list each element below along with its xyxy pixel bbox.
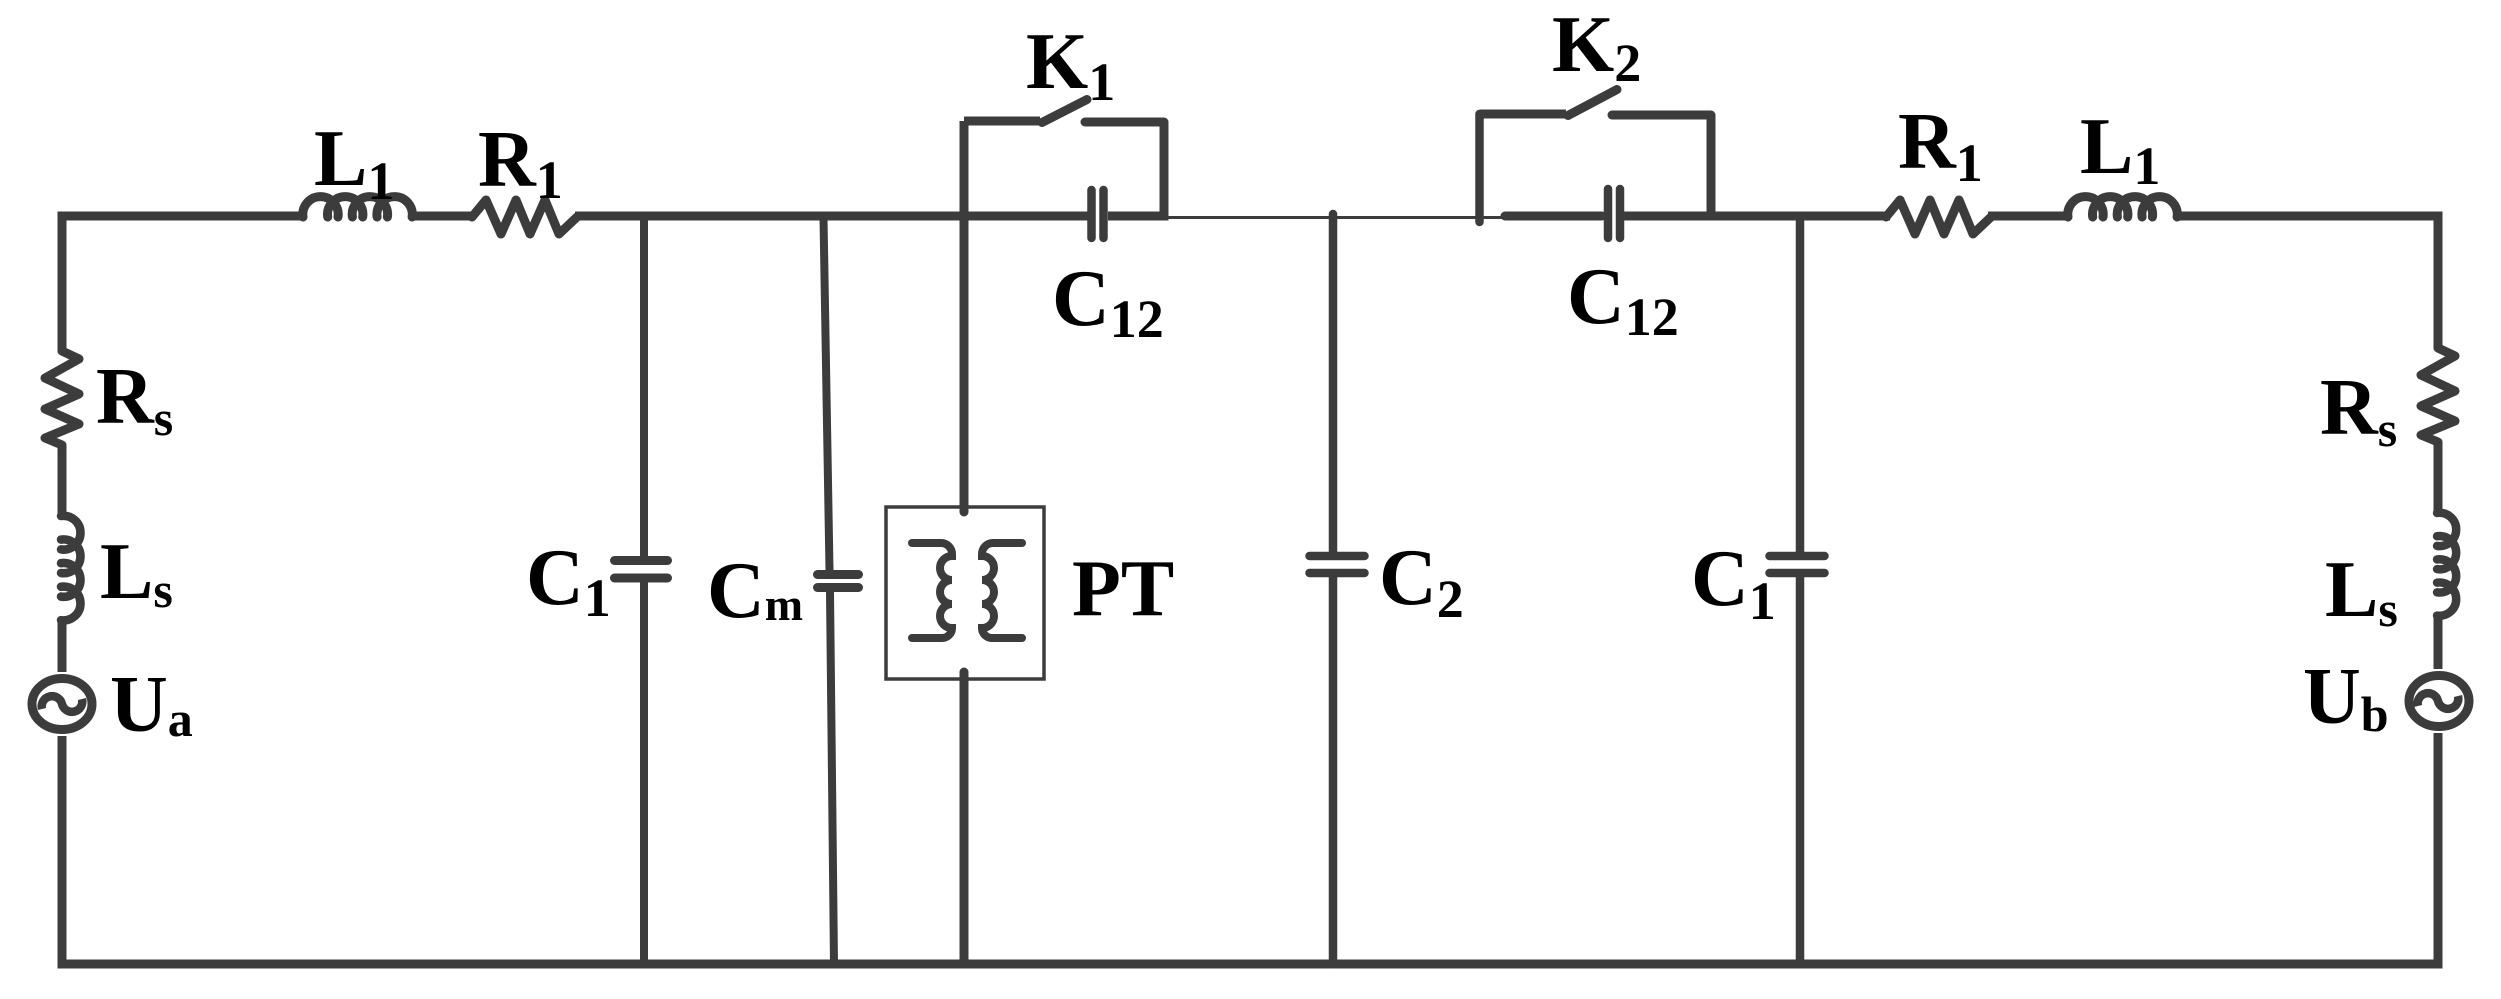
source Ua	[32, 679, 92, 730]
right winding	[982, 543, 1022, 638]
svg-text:Rs: Rs	[96, 353, 173, 446]
svg-text:R1: R1	[1898, 98, 1983, 193]
inductor Ls left	[61, 516, 80, 621]
svg-text:C2: C2	[1379, 534, 1464, 629]
resistor R1 right	[1886, 200, 1991, 234]
svg-text:C1: C1	[1691, 535, 1776, 631]
capacitor C2	[1310, 214, 1365, 964]
capacitor C12 second	[1608, 189, 1620, 238]
svg-text:Ls: Ls	[100, 528, 173, 618]
wire top bus segment 2	[410, 212, 474, 221]
inductor Ls right	[2437, 513, 2456, 616]
wire top bus segment 1	[58, 212, 307, 221]
svg-text:C12: C12	[1567, 253, 1679, 347]
svg-text:C12: C12	[1052, 255, 1164, 349]
svg-text:K1: K1	[1026, 18, 1115, 112]
wire top right segment 1	[1619, 212, 1890, 221]
capacitor C1 right	[1770, 220, 1825, 964]
svg-text:R1: R1	[478, 116, 563, 210]
svg-text:Ua: Ua	[110, 661, 193, 749]
wire right vertical seg3	[2434, 615, 2443, 669]
wire left vertical seg3	[58, 622, 67, 672]
svg-text:K2: K2	[1552, 1, 1641, 93]
wire left vertical seg4	[58, 736, 67, 964]
svg-text:Cm: Cm	[707, 547, 803, 635]
switch K2	[1480, 90, 1712, 223]
svg-text:L1: L1	[314, 115, 394, 211]
svg-text:Ub: Ub	[2303, 653, 2389, 742]
wire top bus segment 3	[575, 212, 1088, 221]
resistor R1 left	[472, 200, 577, 234]
svg-text:C1: C1	[526, 534, 611, 628]
capacitor C1 left	[615, 220, 668, 964]
switch K1	[964, 100, 1164, 508]
wire top right segment 2	[1988, 212, 2070, 221]
resistor Rs left	[45, 351, 79, 445]
capacitor C12 first (series, vertical plates)	[1092, 190, 1104, 238]
wire thick between K1 plates and right vertical	[1108, 212, 1169, 221]
inductor L1 right	[2068, 197, 2178, 217]
wire left vertical seg1	[58, 212, 67, 353]
svg-text:Ls: Ls	[2325, 546, 2398, 637]
transformer PT	[886, 220, 1044, 964]
wire thin middle	[1164, 216, 1504, 219]
wire right vertical seg4	[2434, 733, 2443, 964]
svg-text:Rs: Rs	[2320, 364, 2397, 457]
svg-text:L1: L1	[2080, 103, 2160, 196]
wire thick K2 left segment	[1505, 212, 1602, 221]
wire bottom	[58, 960, 2443, 969]
svg-text:PT: PT	[1072, 545, 1174, 633]
wire right vertical seg1	[2434, 212, 2443, 350]
left winding	[912, 543, 952, 638]
capacitor Cm	[818, 218, 859, 964]
wire right vertical seg2	[2434, 442, 2443, 514]
wire left vertical seg2	[58, 445, 67, 517]
source Ub	[2409, 676, 2469, 727]
inductor L1 left	[303, 197, 413, 217]
wire top right segment 3	[2175, 212, 2443, 221]
resistor Rs right	[2421, 348, 2455, 442]
